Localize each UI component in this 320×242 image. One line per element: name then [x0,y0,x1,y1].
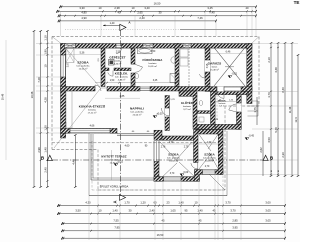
wall szoba3 north [162,136,195,140]
svg-text:3,05: 3,05 [265,208,271,212]
window szoba4 south [203,170,216,175]
svg-text:1,05: 1,05 [170,208,176,212]
svg-text:NAPPALI: NAPPALI [130,107,144,111]
svg-text:2,21 m²: 2,21 m² [219,104,226,107]
wall kozlek-nappali [107,87,140,92]
svg-text:2,70: 2,70 [205,166,210,168]
svg-text:12,51 m²: 12,51 m² [79,67,88,70]
door arc gepeszet2 [108,73,113,77]
left dimension columns [33,31,35,187]
svg-text:kerámia: kerámia [114,60,123,63]
svg-text:kerámia: kerámia [88,109,97,112]
wall laundry south step [179,91,197,96]
svg-text:kerámia: kerámia [183,105,192,108]
svg-text:kerámia: kerámia [149,62,158,65]
szoba3 wall south [154,177,200,182]
threshold dim [215,101,241,103]
svg-text:45: 45 [271,170,273,172]
door gepeszet top [116,44,122,49]
window szoba3 south [164,177,182,182]
eloter wall east [237,94,242,129]
svg-text:10: 10 [99,6,102,10]
wc fixtures [199,101,203,106]
svg-text:4,60: 4,60 [125,145,130,148]
level marker 0,00 [180,174,184,176]
svg-text:SZOBA: SZOBA [168,153,179,157]
garage roof diagonals [214,48,245,87]
svg-text:1,75: 1,75 [253,107,257,113]
washbasin [171,57,176,63]
svg-text:10,04 m²: 10,04 m² [169,159,178,162]
svg-text:2,65: 2,65 [137,11,143,15]
svg-text:SZOBA: SZOBA [77,61,89,65]
svg-text:ÉPÜLET KÖRÜLI JÁRDA: ÉPÜLET KÖRÜLI JÁRDA [100,186,129,189]
svg-text:1,30: 1,30 [44,125,48,131]
svg-text:10,46: 10,46 [30,91,34,98]
wall furdo east [175,44,179,87]
garage threshold band [214,91,249,94]
bottom dimension rows [58,205,285,207]
svg-text:1,40: 1,40 [178,200,184,204]
kitchen counter [65,122,67,128]
garage wall east [247,44,252,104]
svg-text:2,38: 2,38 [114,6,120,10]
szoba4 wall south [195,170,224,175]
svg-text:12,4: 12,4 [294,117,298,123]
svg-text:3,40: 3,40 [144,6,150,10]
svg-text:45: 45 [162,218,165,222]
svg-text:7,28: 7,28 [37,77,41,83]
svg-text:TE: TE [294,0,300,5]
exterior wall top [61,44,253,49]
svg-text:1,70: 1,70 [124,200,130,204]
svg-text:-0,02: -0,02 [232,73,238,76]
wall furdo-laundry south [150,87,210,92]
entry steps [248,100,259,102]
svg-text:3,00: 3,00 [265,200,271,204]
section A marker bottom [120,195,126,201]
svg-text:2,40: 2,40 [139,16,145,20]
door arc garage side [199,74,205,78]
svg-text:3,95: 3,95 [232,226,238,230]
svg-text:10: 10 [44,64,48,67]
svg-text:4,46 m²: 4,46 m² [118,78,126,81]
door arc szoba1 [95,85,101,91]
svg-text:A: A [113,200,118,203]
top dimension rows [60,6,256,8]
svg-text:4,40: 4,40 [72,159,76,165]
wall szoba1-gepeszet [101,48,105,86]
svg-text:3,50: 3,50 [75,208,81,212]
svg-text:1,40: 1,40 [197,208,203,212]
svg-text:lam. parketta: lam. parketta [77,65,90,68]
laundry divider [188,48,190,87]
garage wall south [205,87,252,92]
svg-text:2,85: 2,85 [232,218,238,222]
wall gepeszet-furdo upper [131,48,135,64]
svg-text:3,70: 3,70 [170,173,175,175]
svg-text:10: 10 [132,6,135,10]
door arc szoba3 [191,163,198,169]
svg-text:4,28: 4,28 [44,97,48,103]
svg-text:40: 40 [246,6,249,10]
svg-text:21,48 m²: 21,48 m² [210,68,219,71]
svg-text:3,97: 3,97 [68,62,70,67]
svg-text:2,40: 2,40 [44,167,48,173]
svg-text:3,70: 3,70 [225,200,231,204]
wall wc west [193,96,197,130]
svg-text:3,71 m²: 3,71 m² [183,108,191,111]
roof hip lines [52,37,63,46]
bathtub [138,48,153,54]
wall gepeszet south b [114,68,131,71]
window furdo top [143,44,153,49]
section A marker top [120,24,126,30]
svg-text:2,98: 2,98 [37,147,41,153]
svg-text:6,46: 6,46 [226,50,231,53]
szoba3 wall west [154,162,159,182]
svg-text:1,40: 1,40 [110,22,115,25]
svg-text:lam. parketta: lam. parketta [203,157,216,160]
svg-text:lam. parketta: lam. parketta [131,111,144,114]
svg-text:3,85: 3,85 [120,95,125,98]
svg-text:23: 23 [167,200,170,204]
svg-text:±0,00: ±0,00 [157,113,164,116]
svg-text:3,70: 3,70 [230,208,236,212]
driveway lines [216,92,218,120]
svg-text:NYITOTT TERASZ: NYITOTT TERASZ [101,155,126,159]
door eloter east [237,103,242,112]
wall hall south [197,124,215,129]
level marker -0,45 [245,138,249,140]
boiler gepeszet [109,60,115,66]
wall gepeszet-furdo lower [131,73,135,87]
svg-text:1,50: 1,50 [110,80,115,82]
svg-text:2,70: 2,70 [169,142,174,144]
svg-text:40: 40 [118,11,121,15]
eloter wall south [215,124,241,129]
svg-text:5,48: 5,48 [274,127,278,133]
window szoba1 left [61,55,66,77]
door arc furdo [135,67,143,72]
svg-text:60: 60 [154,200,157,204]
svg-text:16,50: 16,50 [157,233,164,237]
svg-text:4,48: 4,48 [274,67,278,73]
eloter wall west [211,91,216,124]
wall step between szoba3-4 [195,170,200,182]
svg-text:3,98: 3,98 [207,63,209,68]
terrace edge to living room [117,133,155,135]
svg-text:2,30: 2,30 [281,152,285,158]
wall szoba1-konyha [61,87,96,92]
svg-text:11,46: 11,46 [288,106,292,113]
svg-text:4,30: 4,30 [85,200,91,204]
svg-text:4,90: 4,90 [81,16,87,20]
section B marker right [263,155,268,160]
svg-text:4,80: 4,80 [81,11,87,15]
svg-text:16,50: 16,50 [154,2,161,6]
wall gepeszet south a [105,68,109,71]
door eloter-garage opening [217,87,224,92]
terrace door szoba3 west [153,141,155,162]
svg-text:4,40 m²: 4,40 m² [114,62,122,65]
interior glazing furdo south [140,86,150,88]
svg-text:7,95: 7,95 [114,226,120,230]
laundry machines [180,49,188,57]
svg-text:1,90: 1,90 [44,49,48,55]
svg-text:2,62: 2,62 [259,147,263,153]
svg-text:10: 10 [195,200,198,204]
window laundry top [183,44,191,49]
section line A vertical [119,30,121,196]
svg-text:SZOBA: SZOBA [204,153,215,157]
wardrobe szoba1 [66,49,74,63]
svg-text:10,24 m²: 10,24 m² [205,159,214,162]
svg-text:3,70: 3,70 [267,92,271,98]
kozlek interior dim [95,82,175,84]
bottom rooms roof diagonals [160,142,178,162]
roof outline dashed [52,36,259,38]
svg-text:2,78: 2,78 [161,147,166,149]
svg-text:17,21 m²: 17,21 m² [88,111,97,114]
svg-text:10: 10 [99,208,102,212]
level marker -0,02 [114,164,118,166]
level marker ±0,00 [153,116,157,118]
szoba4 wall east [218,129,223,174]
svg-text:lam. parketta: lam. parketta [167,157,180,160]
svg-text:-0,45: -0,45 [249,135,255,138]
window szoba1 top [65,44,76,49]
exterior wall left [61,44,66,139]
svg-text:1,40: 1,40 [44,147,48,153]
wall nappali east [165,96,169,131]
exterior wall kitchen south [61,128,118,133]
garage door opening [217,87,242,92]
svg-text:2,70: 2,70 [184,147,189,149]
window kitchen south [70,128,110,133]
garage wall west [205,48,210,87]
terrace slab outline [91,134,155,180]
svg-text:beton: beton [212,66,218,69]
svg-text:1,10: 1,10 [44,35,48,41]
section line B horizontal [52,159,266,161]
svg-text:10,46: 10,46 [1,93,5,100]
svg-text:GARÁZS: GARÁZS [208,61,222,66]
wall wc divider [197,111,211,114]
svg-text:1,70: 1,70 [207,142,212,144]
svg-text:2,50: 2,50 [116,52,121,54]
svg-text:1,40: 1,40 [112,208,118,212]
svg-text:95: 95 [185,208,188,212]
svg-text:0,00: 0,00 [184,171,189,174]
sidewalk outline [89,131,227,196]
short dim arrow near section A [103,24,120,26]
svg-text:2,40: 2,40 [149,208,155,212]
wall szoba4 north [195,130,223,135]
shower [170,74,179,83]
svg-text:5,36: 5,36 [80,51,85,54]
svg-text:4,50: 4,50 [267,137,271,143]
svg-text:KÖZLEK.: KÖZLEK. [115,72,128,76]
svg-text:30: 30 [129,208,132,212]
door nappali east gap [165,108,169,117]
svg-text:-0,02: -0,02 [118,161,124,164]
svg-text:KONYHA-ÉTKEZŐ: KONYHA-ÉTKEZŐ [79,104,106,109]
svg-text:4,66: 4,66 [90,125,95,128]
svg-text:2,10: 2,10 [267,57,271,63]
level marker -0,02 [228,76,232,78]
door arc gepeszet [116,48,122,54]
svg-text:7,46: 7,46 [197,16,203,20]
door laundry-garage [205,60,210,72]
svg-text:22,04 m²: 22,04 m² [133,113,142,116]
svg-text:3,05: 3,05 [265,218,271,222]
svg-text:3,45: 3,45 [153,80,158,82]
svg-text:45: 45 [213,208,216,212]
svg-text:3,50: 3,50 [151,51,156,53]
pillar terrace corner [154,130,162,140]
svg-text:45: 45 [278,170,280,172]
svg-text:1,20: 1,20 [140,200,146,204]
svg-text:lam. parketta: lam. parketta [115,76,128,79]
toilet [135,73,139,78]
right dimension columns [270,43,272,176]
door arc entry [229,104,236,110]
door arc eloter [217,91,224,98]
svg-text:8,40: 8,40 [281,87,285,93]
svg-text:3,45: 3,45 [207,6,213,10]
svg-text:30: 30 [159,11,162,15]
svg-text:GÉPÉSZET: GÉPÉSZET [109,55,125,60]
svg-text:10,81 m²: 10,81 m² [148,65,157,68]
svg-text:3,30: 3,30 [79,6,85,10]
door arc nappali [161,108,169,116]
svg-text:7,55: 7,55 [113,218,119,222]
wall szoba3-szoba4 [194,130,199,163]
